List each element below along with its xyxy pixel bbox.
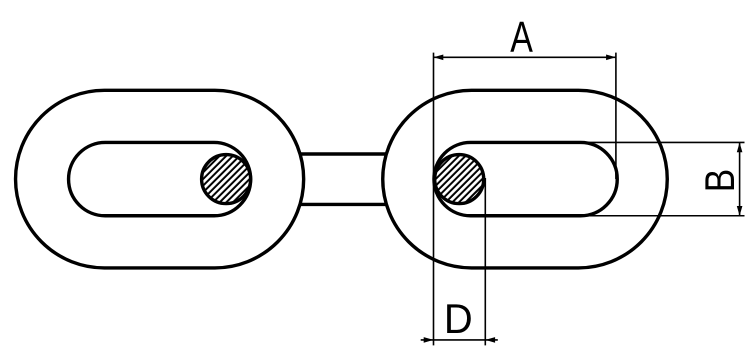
- right link wire cross-section (hatched circle): [435, 155, 484, 204]
- svg-text:B: B: [697, 169, 744, 193]
- arrow B top: [737, 142, 743, 152]
- dimension line A: [434, 56, 616, 58]
- svg-text:D: D: [444, 295, 473, 342]
- extension line B-bottom: [579, 215, 745, 217]
- arrow D right (tip at right extension, pointing left): [485, 337, 495, 343]
- wire: middle connecting link bottom edge: [291, 203, 392, 206]
- right chain link inner contour: [434, 142, 617, 215]
- dimension line B: [739, 142, 741, 215]
- wire: middle connecting link top edge: [291, 152, 392, 155]
- extension line B-top: [579, 141, 745, 143]
- arrow B bottom: [737, 206, 743, 216]
- left chain link outer contour: [16, 90, 304, 268]
- left link wire cross-section (hatched circle): [202, 155, 251, 204]
- dimension line D (outside arrows): [421, 339, 498, 341]
- arrow A left: [434, 55, 444, 61]
- arrow D left (tip at left extension, pointing right): [424, 337, 434, 343]
- extension line A-right: [615, 53, 617, 180]
- extension line A-left / D-left: [433, 53, 435, 346]
- extension line D-right: [484, 178, 486, 345]
- right chain link outer contour: [383, 90, 668, 268]
- arrow A right: [606, 55, 616, 61]
- left chain link inner contour: [69, 142, 251, 215]
- svg-text:A: A: [510, 14, 533, 62]
